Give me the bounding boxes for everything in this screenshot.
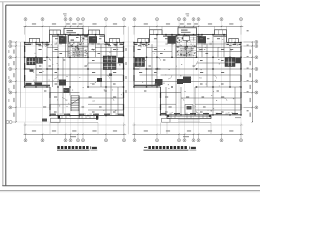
left plan east dark room upper xyxy=(103,56,116,62)
left plan south stair ladder xyxy=(71,96,79,112)
top axis bubble numerals xyxy=(25,19,241,20)
left plan south window mullions xyxy=(53,113,117,115)
right side vertical dimension line xyxy=(251,42,253,122)
left plan middle north wall xyxy=(50,34,105,36)
mid gap dimension text marks xyxy=(125,48,126,93)
right plan title underline xyxy=(144,149,189,151)
right plan shaft marker xyxy=(183,36,190,41)
left plan outer wall window chunks xyxy=(25,46,124,110)
right side dimension text marks xyxy=(250,50,251,117)
right plan title scale marks xyxy=(189,146,196,149)
right plan outer wall window chunks xyxy=(134,46,241,110)
right plan south wall dark band xyxy=(161,113,239,115)
right plan vertical partitions xyxy=(141,35,235,115)
left plan title scale marks xyxy=(90,146,97,149)
right plan top axis bubbles xyxy=(133,18,243,21)
right plan west dark room xyxy=(135,58,145,67)
left plan SW ramp mark xyxy=(42,119,47,122)
right plan envelope walls xyxy=(134,35,241,115)
left plan east dark room lower xyxy=(103,63,116,69)
left plan room label text marks xyxy=(39,38,118,112)
axis grid horizontal lines xyxy=(16,42,252,122)
left plan bottom axis bubbles xyxy=(24,139,126,142)
left plan central stair-elevator core xyxy=(68,35,88,57)
left side bubble leaders xyxy=(12,42,16,122)
left plan top dimension line xyxy=(24,25,127,27)
left side dimension text marks xyxy=(13,50,14,117)
right plan SW entry steps xyxy=(162,118,171,122)
left plan wing north wall dark band xyxy=(25,43,124,45)
left plan bottom faint dimension line xyxy=(24,124,127,126)
left plan horizontal partitions xyxy=(25,44,124,110)
left plan top stair block xyxy=(64,28,83,34)
sheet edge left light line 2 xyxy=(3,2,5,186)
left plan envelope walls xyxy=(25,35,124,116)
right plan room label text marks xyxy=(138,38,234,112)
right plan bottom dimension line xyxy=(132,133,243,135)
right plan bottom axis bubbles xyxy=(133,139,243,142)
left plan core side subclusters xyxy=(59,36,97,44)
left plan south wall dark band xyxy=(50,113,124,115)
top dimension extension stubs xyxy=(25,26,241,34)
right plan SE step line xyxy=(235,117,241,119)
right plan door swing arcs xyxy=(141,44,227,101)
bottom axis bubble leaders xyxy=(26,134,242,138)
right plan middle north wall inner band xyxy=(163,35,227,37)
sheet frame left dark line xyxy=(5,5,7,186)
left side vertical dimension line xyxy=(15,42,17,122)
sheet edge top light line xyxy=(0,1,260,3)
bottom dimension total text below line xyxy=(70,136,189,137)
left plan wall furniture marks xyxy=(26,78,103,86)
left side vertical dimension line 2 xyxy=(20,42,22,107)
right side dimension ticks xyxy=(252,41,253,122)
left side axis bubbles xyxy=(6,41,12,124)
right plan mid dark cluster xyxy=(155,77,191,86)
right plan horizontal partitions xyxy=(134,44,241,110)
right side axis bubble numerals xyxy=(256,41,257,108)
bottom dimension extension stubs xyxy=(25,123,241,135)
right plan structural column dots xyxy=(133,34,241,116)
right plan terrace line xyxy=(162,121,212,123)
left side dimension ticks xyxy=(15,41,16,122)
sheet edge left light line xyxy=(1,2,3,186)
right plan title (CJK glyph blocks) xyxy=(144,146,187,149)
right plan top dimension line xyxy=(132,25,243,27)
tiny annotation above right plan xyxy=(186,13,190,16)
left plan elevator shaft white box xyxy=(69,36,81,43)
right plan core side subclusters xyxy=(168,36,207,44)
right side axis bubbles xyxy=(255,41,258,109)
right plan south window mullions xyxy=(163,113,235,115)
right plan wing bay windows xyxy=(138,39,239,43)
right plan center entrance stub xyxy=(185,105,193,115)
left plan west secondary dark block xyxy=(37,58,43,64)
right plan balcony corner posts xyxy=(167,115,211,117)
right plan top stair block xyxy=(178,28,197,35)
tiny annotation above left plan xyxy=(63,13,67,16)
left plan wing north walls xyxy=(25,42,124,44)
mid gap extension line xyxy=(127,26,129,134)
sheet lower rule dark xyxy=(0,190,260,192)
left plan door swing arcs xyxy=(43,44,115,101)
left plan structural column dots xyxy=(24,34,124,116)
right plan balcony inner line xyxy=(167,116,211,118)
left plan middle north wall inner band xyxy=(52,35,105,37)
axis grid vertical lines left plan xyxy=(26,21,125,134)
left plan bottom dimension line xyxy=(24,133,127,135)
right plan core stair rungs lower xyxy=(180,49,193,57)
left plan west wing row-69 wall chunks xyxy=(25,68,53,70)
right plan central stair-elevator core xyxy=(176,35,197,57)
right plan north upper bay windows xyxy=(150,30,227,35)
axis grid vertical lines right plan xyxy=(135,21,242,134)
left plan stair head dark mark xyxy=(64,88,70,93)
right margin small text marks xyxy=(247,30,249,111)
right plan wing north wall dark band xyxy=(134,43,241,45)
bottom dimension text marks above line xyxy=(32,130,234,131)
right plan fine speckle texture xyxy=(139,39,240,113)
left plan east wall dark blob xyxy=(118,58,124,63)
right plan center porch lines xyxy=(178,119,200,121)
left plan west wing small dark mark xyxy=(30,69,34,72)
left side axis bubble numerals xyxy=(10,41,11,108)
left plan north window mullions xyxy=(31,43,121,45)
right plan middle north wall xyxy=(150,34,227,36)
left plan wing bay windows xyxy=(29,39,119,43)
right plan east dark room xyxy=(225,58,235,67)
left plan SW step dark band xyxy=(25,84,50,86)
left plan stair side wall xyxy=(78,96,80,119)
left plan title (CJK glyph blocks) xyxy=(57,146,88,149)
sheet frame bottom line xyxy=(2,185,260,187)
left plan core stair rungs lower xyxy=(72,49,84,57)
left plan stair cut diagonal xyxy=(70,98,80,105)
right plan SW step dark band xyxy=(134,84,161,86)
right plan bottom faint dimension line xyxy=(132,124,243,126)
right plan wing north walls xyxy=(134,42,241,44)
top dimension text marks xyxy=(32,23,234,24)
left plan north upper bay windows xyxy=(50,30,100,35)
left plan title underline xyxy=(57,149,90,151)
right plan south balcony block xyxy=(167,115,211,119)
right plan west wing row-69 wall chunks xyxy=(134,68,161,70)
right plan east wall dark blob xyxy=(236,58,242,63)
left plan south entry block xyxy=(58,116,98,119)
sheet frame top dark line xyxy=(6,4,260,6)
top dimension ticks xyxy=(25,26,242,27)
right side bubble leaders xyxy=(244,42,255,107)
sheet lower rule light xyxy=(0,191,260,193)
right plan north window mullions xyxy=(140,43,237,45)
bottom dimension ticks xyxy=(25,124,242,135)
left plan top axis bubbles xyxy=(24,18,126,21)
bottom axis bubble numerals xyxy=(25,140,241,141)
left margin vertical text marks xyxy=(8,50,9,102)
left plan fine speckle texture xyxy=(28,39,121,111)
left plan east wing small dot xyxy=(109,74,112,77)
left plan vertical partitions xyxy=(36,35,118,116)
left plan terrace line xyxy=(51,121,99,123)
left plan SW entry steps xyxy=(51,118,61,122)
left plan entry block corner posts xyxy=(58,115,98,120)
left plan west bay window (dark) xyxy=(27,58,36,65)
